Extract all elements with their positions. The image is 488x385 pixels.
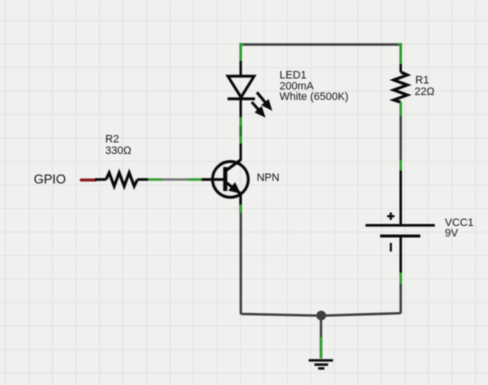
svg-text:R2: R2 — [105, 134, 119, 146]
transistor Q1 NPN: circle — [213, 160, 249, 198]
node junction dot — [316, 311, 326, 321]
wire: top rail from LED anode to R1 top — [240, 43, 402, 46]
wire: R2 to transistor base — [148, 178, 226, 180]
svg-text:R1: R1 — [415, 75, 429, 87]
wire: GPIO red stub (net flag lead) — [81, 178, 95, 181]
battery VCC1: negative plate (short) — [380, 235, 420, 238]
wire: transistor emitter down to bottom rail — [239, 194, 242, 315]
wire: bottom rail left (emitter to junction) — [241, 314, 321, 316]
label: LED1 value text — [280, 69, 349, 103]
LED light-emission arrow 2 — [252, 102, 265, 117]
svg-text:9V: 9V — [445, 228, 459, 240]
battery plus sign — [387, 213, 394, 220]
svg-text:330Ω: 330Ω — [105, 145, 131, 157]
wire: battery minus down to bottom rail — [400, 236, 402, 314]
LED light-emission arrow 1 — [257, 92, 272, 110]
transistor emitter diagonal with arrow — [226, 182, 241, 194]
wire: junction to ground — [320, 316, 322, 359]
battery minus sign (rotated, appears vertical) — [390, 243, 392, 252]
svg-text:White (6500K): White (6500K) — [280, 91, 349, 103]
battery VCC1: positive plate (long) — [366, 224, 435, 227]
wire: bottom rail right (junction to battery) — [321, 313, 400, 316]
ground symbol — [309, 360, 333, 368]
label: VCC1 value text — [445, 217, 474, 240]
transistor collector diagonal — [226, 160, 241, 171]
resistor R2 lead left — [95, 178, 106, 181]
transistor base bar — [223, 167, 227, 191]
wire: LED cathode to transistor collector — [239, 99, 242, 160]
wire: LED anode vertical segment — [239, 43, 242, 76]
svg-text:GPIO: GPIO — [34, 172, 66, 187]
svg-text:NPN: NPN — [257, 172, 280, 184]
label: R1 value text — [415, 75, 435, 99]
label: R2 value text — [105, 134, 131, 157]
LED LED1 symbol (diode triangle + cathode bar) — [228, 76, 256, 99]
wire: R1 top lead from rail — [399, 43, 402, 72]
resistor R2 zigzag — [106, 173, 137, 187]
wire: R1 bottom to battery VCC1 plus — [400, 102, 402, 224]
svg-text:22Ω: 22Ω — [415, 86, 435, 98]
resistor R1 zigzag — [394, 72, 408, 102]
transistor base lead — [202, 178, 226, 181]
resistor R2 lead right — [137, 178, 148, 181]
